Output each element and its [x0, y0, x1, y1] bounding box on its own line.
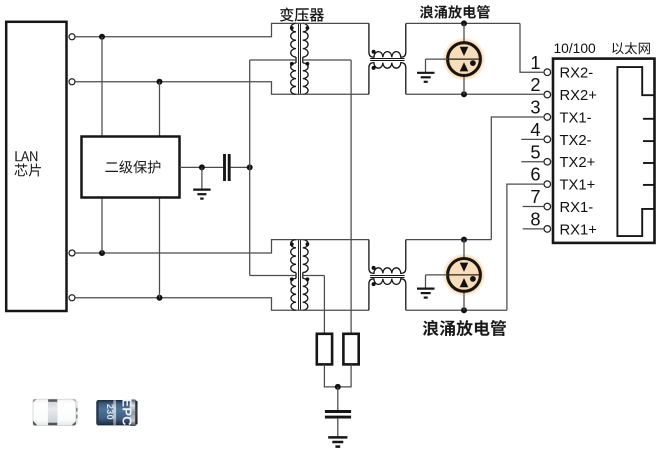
T1 secondary center-tap drop to R2 (crosses rails)	[350, 60, 352, 334]
transformer T2 primary top winding	[291, 240, 296, 273]
surge arrester GD1 third electrode dot	[470, 60, 476, 66]
GD2 ground wire	[426, 274, 448, 276]
ground stem at U2 output	[201, 167, 203, 189]
LAN pin terminal 1 (open circle)	[69, 34, 75, 40]
T2 secondary bottom rail to choke L2	[303, 309, 369, 311]
LAN pin terminal 2 (open circle)	[69, 79, 75, 85]
pin 4 stub wire	[521, 138, 543, 140]
surge arrester GD2 leads	[463, 239, 465, 258]
svg-text:5: 5	[530, 141, 540, 162]
capacitor C1 (series, vertical plates)	[223, 154, 226, 181]
svg-text:3: 3	[530, 97, 540, 118]
wire from LAN pin4 to transformer T2 primary bottom	[76, 298, 296, 310]
transformer T1 rail bridges across core	[296, 22, 304, 24]
pin1 riser	[520, 23, 543, 72]
transformer T2 core	[298, 240, 300, 311]
connector J1 box	[553, 59, 655, 243]
surge arrester GD1 glow	[442, 37, 487, 82]
common-mode choke L2 top winding	[369, 240, 406, 274]
pin 1 terminal circle	[544, 69, 551, 76]
chassis ground symbol	[328, 436, 347, 439]
node on wire2 to protection	[157, 79, 163, 85]
node on wire1 to protection	[99, 34, 105, 40]
svg-text:RX1-: RX1-	[560, 200, 594, 216]
photo: EPCOS gas discharge tube (blue cylinder)	[96, 398, 137, 426]
svg-text:230: 230	[105, 404, 115, 420]
node GDT1 top	[461, 20, 467, 26]
pin6 riser	[507, 184, 543, 310]
wire protection box to wire4 (crosses wire3)	[159, 198, 161, 298]
choke L1 core lines	[370, 58, 405, 60]
svg-text:2: 2	[530, 74, 540, 95]
L2 bottom rail to pin6 riser	[406, 309, 507, 311]
resistor R2	[343, 334, 358, 365]
transformer T1 core	[298, 23, 300, 94]
node R1/R2 join	[335, 384, 341, 390]
photo: SMD surge component (white)	[33, 399, 78, 425]
common-mode choke L1 top winding	[369, 23, 406, 57]
svg-text:7: 7	[530, 186, 540, 207]
label 浪涌放电管 (surge arrester, top)	[420, 5, 490, 19]
svg-text:8: 8	[530, 209, 540, 230]
label 变压器 (transformer)	[280, 8, 324, 22]
node on wire4 to protection	[157, 295, 163, 301]
transformer T2 phase dots	[290, 242, 294, 246]
T1 secondary center tap wire	[303, 59, 351, 61]
surge arrester GD1 body circle	[448, 43, 481, 76]
pin 7 terminal circle	[544, 203, 551, 210]
capacitor C2 (to chassis ground, horizontal plates)	[325, 410, 351, 413]
node at U2 output / ground tap	[199, 164, 205, 170]
L2 top rail to pin3 riser	[406, 239, 492, 241]
wire from LAN pin2 to transformer T1 primary bottom	[76, 82, 296, 95]
choke L2 core lines	[370, 275, 405, 277]
svg-text:EPC: EPC	[119, 398, 134, 426]
transformer T2 rail bridges across core	[296, 239, 304, 241]
transformer T1 primary top winding	[291, 23, 296, 57]
svg-text:RX1+: RX1+	[560, 222, 597, 238]
surge arrester GD2 electrodes	[460, 263, 469, 272]
wire from LAN pin3 to transformer T2 primary top	[76, 240, 296, 253]
svg-text:TX2+: TX2+	[560, 155, 596, 171]
LAN chip label text	[15, 151, 37, 161]
pin 8 stub wire	[523, 228, 544, 230]
node C1 to bus	[247, 164, 253, 170]
T2 secondary center tap wire	[303, 275, 325, 277]
LAN pin terminal 3 (open circle)	[69, 250, 75, 256]
node GDT2 bottom	[461, 307, 467, 313]
transformer T1 secondary top winding	[303, 23, 308, 57]
transformer T2 secondary top winding	[303, 240, 308, 273]
LAN chip U1 (LAN 芯片) box	[6, 22, 66, 311]
choke L1 bottom winding	[369, 63, 406, 95]
T1 secondary top rail to choke L1	[303, 22, 369, 24]
L1 top rail to pin1 riser	[406, 22, 520, 24]
svg-text:TX2-: TX2-	[560, 133, 592, 149]
svg-text:6: 6	[530, 164, 540, 185]
GD1 ground wire	[426, 58, 448, 60]
LAN pin terminal 4 (open circle)	[69, 295, 75, 301]
svg-text:TX1-: TX1-	[560, 110, 592, 126]
surge arrester GD2 body circle	[448, 259, 481, 292]
protection box label	[105, 160, 160, 173]
pin 4 terminal circle	[544, 136, 551, 143]
svg-text:1: 1	[530, 52, 540, 73]
svg-text:RX2-: RX2-	[560, 66, 594, 82]
svg-text:RX2+: RX2+	[560, 88, 597, 104]
transformer T2 secondary bottom winding	[302, 276, 304, 279]
RJ45 jack profile	[617, 67, 653, 236]
choke L2 phase dots	[372, 266, 376, 270]
wire C1 to center-tap bus	[231, 166, 250, 168]
node on wire3 to protection	[99, 250, 105, 256]
protection box U2 (二级保护)	[82, 137, 180, 198]
label 浪涌放电管 (surge arrester, bottom)	[423, 320, 506, 336]
GD1 ground symbol	[417, 72, 435, 74]
transformer T1 secondary bottom winding	[302, 60, 304, 63]
pin 8 terminal circle	[544, 226, 551, 233]
pin 3 terminal circle	[544, 114, 551, 121]
transformer T1 phase dots	[290, 26, 294, 30]
T2 secondary top rail to choke L2	[303, 239, 369, 241]
surge arrester GD2 third electrode dot	[470, 276, 476, 282]
pin 6 terminal circle	[544, 181, 551, 188]
svg-text:TX1+: TX1+	[560, 178, 596, 194]
T1 secondary bottom rail to choke L1	[303, 93, 369, 95]
svg-text:10/100: 10/100	[554, 41, 597, 56]
pin 2 terminal circle	[544, 91, 551, 98]
surge arrester GD1 electrodes	[460, 47, 469, 56]
resistor R1	[317, 334, 332, 365]
svg-text:4: 4	[530, 119, 540, 140]
choke L2 bottom winding	[369, 279, 406, 310]
wire C2 to ground	[337, 419, 339, 438]
wire U2 output to capacitor C1	[180, 166, 224, 168]
wire R1 bottom to join	[324, 364, 351, 387]
primary center-tap bus (vertical, crosses wire2 and wire3)	[249, 60, 251, 276]
wire protection box to wire3	[101, 198, 103, 254]
wire protection box to wire2	[159, 82, 161, 137]
node GDT1 bottom	[461, 91, 467, 97]
GD2 ground symbol	[417, 288, 435, 290]
pin 5 stub wire	[521, 161, 543, 163]
ground symbol at U2 output	[193, 189, 210, 191]
pin 7 stub wire	[523, 206, 544, 208]
transformer T1 primary bottom winding	[295, 60, 297, 63]
T1 primary center tap wire	[250, 59, 296, 61]
surge arrester GD1 leads	[463, 23, 465, 42]
L1 bottom rail to connector pin2	[406, 93, 544, 95]
surge arrester GD2 glow	[442, 252, 487, 297]
node GDT2 top	[461, 237, 467, 243]
pin 5 terminal circle	[544, 158, 551, 165]
wire protection box to wire1	[101, 37, 103, 137]
wire from LAN pin1 to transformer T1 primary top	[76, 23, 296, 36]
T2 primary center tap wire	[250, 275, 296, 277]
pin3 riser	[491, 117, 543, 240]
wire join to capacitor C2	[337, 387, 339, 410]
T2 secondary center-tap drop to R1 (crosses bottom rail)	[323, 276, 325, 334]
transformer T2 primary bottom winding	[295, 276, 297, 279]
choke L1 phase dots	[372, 50, 376, 54]
